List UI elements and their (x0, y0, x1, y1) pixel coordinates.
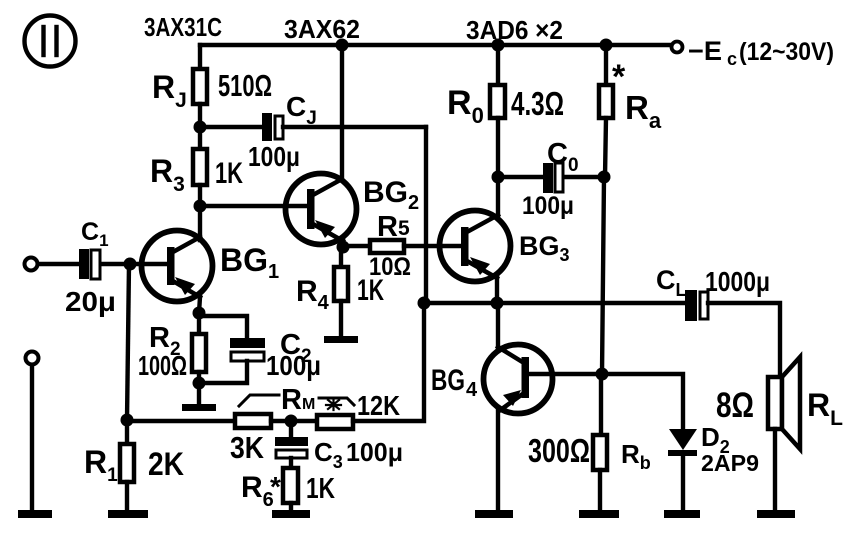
svg-text:2AP9: 2AP9 (701, 450, 759, 476)
terminal: -Ec supply (672, 42, 683, 53)
ground: R1 (108, 510, 148, 518)
svg-text:3AX62: 3AX62 (284, 14, 360, 44)
wire: rail to R0 (496, 45, 500, 85)
ground: speaker (757, 510, 795, 518)
ground: BG4 emitter (475, 510, 513, 518)
wire: R3 to node (198, 185, 202, 206)
wire: emitter node to C2 top (199, 316, 247, 338)
svg-text:100μ: 100μ (522, 192, 574, 220)
wire: 3K to node (271, 419, 317, 423)
node: RJ/R3/CJ junction (194, 121, 207, 134)
transistor BG1 (142, 231, 213, 302)
wire: C1 to BG1 base (101, 262, 168, 266)
wire: node down to Rb (599, 374, 603, 435)
wire: node to C3 (289, 421, 293, 437)
wire: rail node down to BG2 collector (340, 45, 344, 180)
svg-text:(12~30V): (12~30V) (739, 38, 834, 66)
annotation: RM wiper arrow (239, 395, 279, 406)
wire: Ra line down to BG4 base node (602, 177, 604, 374)
node: BG1 emitter / R2 / C2 (193, 307, 206, 320)
resistor Rb (593, 435, 607, 470)
svg-text:−E: −E (688, 36, 722, 66)
terminal: input (25, 258, 38, 271)
node: R2 bottom / C2 bottom (193, 377, 206, 390)
node: BG2 emitter / R4 / R5 (337, 241, 350, 254)
wire: C0 to Ra line (566, 175, 604, 179)
resistor R2 (192, 334, 206, 372)
wire: node to ground (197, 383, 201, 404)
wire: CJ right to bootstrap vertical (283, 125, 426, 129)
svg-text:1000μ: 1000μ (705, 266, 770, 297)
capacitor C0 (543, 163, 563, 193)
svg-text:4: 4 (466, 379, 478, 401)
wire: input to C1 (38, 262, 79, 266)
wire: node to R4 (339, 247, 343, 267)
node: bootstrap/output (418, 297, 431, 310)
wire: node down to feedback node (127, 264, 129, 420)
capacitor C1 (79, 249, 100, 279)
wire: Rb to ground (598, 470, 602, 511)
wire: BG4 emitter to ground (496, 411, 500, 511)
svg-text:510Ω: 510Ω (218, 68, 272, 103)
ground: R4 (324, 336, 358, 343)
wire: R0 to node (496, 118, 500, 177)
svg-text:100μ: 100μ (266, 350, 321, 381)
svg-text:2K: 2K (148, 446, 184, 482)
wire: feedback node to 3K (127, 419, 235, 423)
wire: 12K up to output node (353, 303, 424, 421)
label -Ec supply (688, 36, 834, 69)
figure number circle II (25, 16, 76, 67)
node: top rail at Ra (600, 39, 613, 52)
wire: speaker to ground (773, 429, 777, 511)
node: R3/BG1-collector/BG2-base junction (194, 200, 207, 213)
svg-text:100Ω: 100Ω (138, 350, 187, 381)
label Ra with star (612, 58, 662, 133)
wire: node to C0 (498, 175, 543, 179)
node: RM wiper / C3 (285, 415, 298, 428)
svg-text:1K: 1K (357, 274, 384, 307)
svg-text:BG: BG (431, 364, 465, 397)
wire: D2 to ground (681, 455, 685, 511)
node: R1 / feedback wire (121, 414, 134, 427)
svg-text:3AX31C: 3AX31C (144, 12, 222, 42)
node: top rail at BG2 line (336, 39, 349, 52)
wire: terminal to ground (30, 365, 34, 511)
svg-text:*: * (612, 58, 626, 96)
capacitor CJ (262, 113, 283, 141)
transistor BG3 (440, 211, 511, 282)
resistor R6 (283, 468, 298, 503)
svg-text:20μ: 20μ (65, 286, 116, 317)
svg-text:100μ: 100μ (248, 141, 300, 172)
resistor R4 (334, 267, 348, 301)
ground: D2 (664, 510, 700, 518)
resistor R5 (370, 240, 404, 253)
transistor BG2 (286, 174, 357, 245)
wire: BG4 base to D2 branch (529, 374, 683, 429)
wire: R2 to bottom node (197, 372, 201, 383)
label R6 with star (241, 471, 281, 511)
wire: BG1 emitter down (199, 297, 200, 313)
wire: Ra to node (605, 118, 606, 177)
node: R0/C0/BG3-collector (492, 171, 505, 184)
wire: BG2 base wire (200, 204, 308, 208)
wire: C2 bottom to R2 bottom node (199, 361, 247, 383)
ground: input (18, 510, 52, 518)
wire: rail to Ra (604, 45, 608, 85)
node: top rail at R0 (492, 39, 505, 52)
wire: BG1 collector up (198, 237, 202, 240)
wire: RJ to node (198, 104, 202, 149)
wire: node down to BG1 collector (198, 206, 202, 240)
wire: R1 to ground (125, 482, 129, 511)
node: BG3 emitter/BG4 collector output (491, 297, 504, 310)
resistor RM left section 3K (235, 414, 271, 428)
svg-text:12K: 12K (357, 390, 400, 421)
wire: BG3 emitter down to output node (495, 277, 499, 304)
transistor BG4 (mirrored) (484, 345, 553, 414)
wire: BG4 collector to output node (496, 303, 500, 347)
wire: rail down to RJ (198, 45, 202, 69)
svg-text:1K: 1K (215, 157, 243, 190)
ground: R6 (272, 510, 310, 518)
wire: node to R1 (125, 420, 129, 444)
svg-text:*: * (270, 471, 281, 502)
svg-text:8Ω: 8Ω (716, 386, 754, 425)
svg-text:3K: 3K (230, 430, 265, 465)
wire: output line to CL (424, 301, 685, 305)
svg-text:4.3Ω: 4.3Ω (511, 85, 564, 122)
wire: bootstrap vertical down to output node (424, 127, 428, 303)
wire: R5 to BG3 base (404, 244, 462, 248)
node: Ra/C0 junction (598, 171, 611, 184)
svg-text:3AD6 ×2: 3AD6 ×2 (466, 15, 563, 45)
terminal: input ground side (26, 352, 39, 365)
wire: node to R5 (343, 244, 370, 248)
capacitor C3 (275, 437, 308, 458)
node: BG4 base / Ra line / Rb (596, 368, 609, 381)
wire: node to R2 (197, 313, 201, 334)
resistor R3 (193, 149, 207, 185)
resistor RJ (193, 69, 207, 104)
svg-text:c: c (727, 49, 737, 69)
annotation: RM star mark (319, 398, 354, 410)
wire: node (200,127) to CJ (200, 125, 262, 129)
capacitor C2 (230, 338, 265, 361)
svg-text:300Ω: 300Ω (528, 432, 590, 469)
wire: R4 to ground (339, 301, 343, 336)
wire: top power rail (200, 43, 670, 47)
wire: C3 to R6 (289, 458, 293, 468)
resistor Ra (599, 85, 613, 118)
wire: CL to speaker (708, 303, 780, 377)
wire: BG3 collector up to R0 node (496, 177, 500, 215)
ground: Rb (579, 510, 619, 518)
resistor R1 (120, 444, 134, 482)
node: C1 / BG1 base / R1 line (124, 258, 137, 271)
resistor R0 (490, 85, 505, 118)
ground: R2 (182, 404, 216, 411)
svg-text:1K: 1K (306, 473, 335, 505)
capacitor CL (685, 290, 708, 321)
svg-text:100μ: 100μ (346, 437, 403, 467)
resistor RM right section 12K (317, 415, 353, 429)
speaker RL (768, 357, 800, 449)
wire: R6 to ground (289, 503, 293, 511)
diode D2 (668, 429, 697, 456)
wire: BG2 emitter to node (341, 240, 345, 247)
